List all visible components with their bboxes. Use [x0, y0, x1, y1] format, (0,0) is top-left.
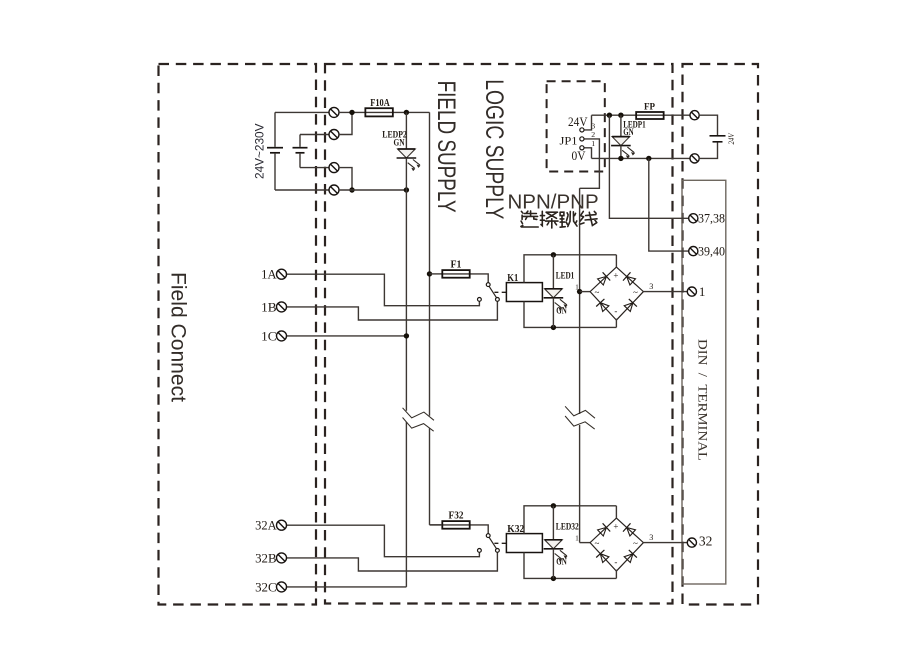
relay coil K1 [506, 283, 542, 302]
terminal logic supply + [690, 111, 699, 120]
svg-text:32C: 32C [255, 579, 277, 594]
svg-text:GN: GN [556, 307, 567, 317]
svg-text:24V: 24V [568, 115, 588, 129]
svg-text:1: 1 [575, 533, 579, 542]
LED LED1 anode wire [552, 255, 554, 289]
svg-text:1B: 1B [261, 299, 277, 314]
wire battery B2 stubs [299, 135, 301, 168]
terminal supply-1 [329, 107, 339, 117]
jumper pin 2 [580, 137, 584, 141]
LED LED32 anode wire [552, 506, 554, 540]
wire battery B1 left rail [274, 112, 276, 190]
junction supply top [349, 110, 354, 115]
jumper pin 3 [580, 128, 584, 132]
svg-text:0V: 0V [572, 149, 586, 163]
svg-text:32B: 32B [255, 550, 277, 565]
relay contact K32 throw B [496, 549, 500, 553]
svg-text:+: + [613, 271, 618, 281]
svg-text:F1: F1 [451, 260, 462, 271]
fuse F10A [365, 108, 393, 116]
linkage K32 [494, 542, 506, 544]
jumper JP1 box [547, 81, 605, 171]
svg-text:GN: GN [394, 138, 405, 148]
svg-text:GN: GN [623, 128, 634, 138]
break mark select rail [565, 406, 595, 429]
relay contact K1 arm [489, 286, 496, 297]
field return rail (upper) [405, 190, 407, 411]
relay contact K1 common [486, 283, 490, 287]
wire supply terminal 3 feed [300, 167, 329, 169]
wire bridge 1 - stub [615, 319, 617, 328]
svg-text:37,38: 37,38 [698, 212, 725, 226]
relay contact K32 arm [489, 537, 496, 548]
label 线 (CJK wire) [580, 211, 598, 225]
zone box: Field Connect area [159, 64, 317, 605]
relay contact K1 throw B [496, 298, 500, 302]
svg-text:-: - [614, 557, 617, 567]
junction 0V/39-40 [646, 156, 651, 161]
wire 1B input [287, 301, 498, 320]
junction select/bridge 1 [577, 289, 582, 294]
junction supply bottom [349, 187, 354, 192]
wire JP1 pin2 select [580, 139, 600, 188]
svg-text:JP1: JP1 [560, 133, 578, 147]
wire through fuse F1 [442, 274, 488, 283]
wire K1 coil top [524, 255, 616, 283]
wire 32A input [287, 525, 480, 557]
junction LED32 anode [551, 503, 556, 508]
svg-text:LOGIC SUPPLY: LOGIC SUPPLY [480, 79, 508, 219]
wire supply-4 to return rail [339, 189, 406, 191]
svg-text:GN: GN [556, 558, 567, 568]
wire to terminal 37,38 [609, 115, 688, 218]
wire bridge 32 output [643, 542, 687, 544]
wire 1A input [287, 274, 480, 306]
LED LED1 cathode wire [552, 298, 554, 328]
wire K32 coil bottom [524, 553, 616, 579]
terminal 37,38 [689, 214, 698, 223]
diode bridge 32 [590, 518, 643, 571]
svg-text:-: - [614, 306, 617, 316]
terminal 32A [277, 520, 287, 530]
terminal supply-2 [329, 130, 339, 140]
terminal supply-3 [329, 163, 339, 173]
junction 24V/LEDP1 [618, 113, 623, 118]
relay contact K32 throw A [478, 549, 482, 553]
wire supply-1 to fuse F10A [339, 111, 365, 113]
field supply rail (lower) [429, 428, 431, 525]
wire from battery 24V - [699, 143, 717, 159]
wire supply rail to F32 [430, 524, 443, 526]
select net rail (upper) [579, 188, 581, 414]
wire through fuse F32 [442, 525, 488, 534]
wire 32B input [287, 552, 498, 571]
LED LEDP1 cathode wire [620, 146, 622, 159]
svg-text:1C: 1C [261, 328, 277, 343]
svg-text:Field Connect: Field Connect [167, 272, 191, 402]
label 择 (CJK choose) [540, 211, 558, 228]
terminal DIN 32 [687, 538, 696, 547]
svg-text:K1: K1 [507, 273, 518, 284]
fuse F1 [442, 270, 469, 278]
LED LEDP1 anode wire [620, 115, 622, 136]
field return rail (lower) [405, 422, 407, 587]
svg-text:3: 3 [649, 533, 653, 542]
junction LED1 anode [551, 252, 556, 257]
svg-text:NPN/PNP: NPN/PNP [508, 191, 599, 214]
jumper pin 1 [580, 146, 584, 150]
wire bridge 1 output [643, 291, 687, 293]
wire bridge 32 - stub [615, 570, 617, 579]
wire K1 coil bottom [524, 302, 616, 328]
LED LEDP2 anode wire [405, 112, 407, 149]
svg-text:1: 1 [699, 284, 706, 299]
terminal 1C [277, 331, 287, 341]
wire to battery 24V + [699, 115, 717, 135]
wire rail to fuse F32 [430, 524, 443, 526]
svg-text:+: + [613, 522, 618, 532]
svg-text:32: 32 [699, 534, 713, 549]
wire bridge 1 + stub [615, 255, 617, 267]
LED LED1 [544, 289, 568, 311]
field supply rail (upper) [429, 112, 431, 415]
LED LEDP1 [611, 137, 635, 159]
svg-text:1: 1 [591, 139, 595, 148]
svg-text:3: 3 [649, 282, 653, 291]
terminal 1A [277, 269, 287, 279]
svg-text:K32: K32 [507, 524, 524, 535]
wire rail to fuse F1 [430, 273, 443, 275]
wire JP1 pin3 to 24V rail [584, 115, 591, 130]
relay coil K32 [506, 534, 542, 553]
select net rail (lower) [579, 425, 581, 543]
wire bridge supply-3/4 [339, 168, 352, 190]
terminal supply-4 [329, 185, 339, 195]
break mark field rails [403, 408, 434, 431]
svg-text:F32: F32 [449, 511, 464, 522]
svg-text:DIN / TERMINAL: DIN / TERMINAL [696, 339, 710, 461]
junction LED1 cathode [551, 325, 556, 330]
terminal 32B [277, 553, 287, 563]
svg-text:~: ~ [633, 538, 638, 548]
fuse FP [636, 112, 664, 119]
zone box: DIN terminal area [683, 64, 759, 605]
svg-text:32A: 32A [255, 518, 277, 533]
junction F1/supply rail [427, 271, 432, 276]
svg-text:FP: FP [644, 103, 655, 113]
junction LED32 cathode [551, 576, 556, 581]
svg-text:LED1: LED1 [556, 272, 575, 282]
diode bridge 1 [590, 267, 643, 320]
svg-text:1A: 1A [261, 267, 277, 282]
wire K32 coil top [524, 506, 616, 534]
wire bridge supply-1/2 [339, 112, 352, 134]
svg-text:24V: 24V [727, 133, 736, 145]
LED LEDP2 cathode wire [405, 158, 407, 190]
junction 0V/LEDP1 [618, 156, 623, 161]
svg-text:3: 3 [591, 121, 595, 130]
relay contact K32 common [486, 534, 490, 538]
wire select to bridge 32 [580, 542, 591, 544]
label 跳 (CJK jump) [560, 211, 577, 227]
wire through fuse F10A [365, 111, 429, 113]
linkage K1 [494, 291, 506, 293]
svg-text:2: 2 [591, 130, 595, 139]
terminal DIN 1 [687, 287, 696, 296]
svg-text:39,40: 39,40 [698, 244, 725, 258]
wire supply terminal 2 feed [300, 134, 329, 136]
wire supply terminal 1 feed [275, 111, 329, 113]
wire bridge 32 + stub [615, 506, 617, 518]
svg-text:FIELD SUPPLY: FIELD SUPPLY [432, 81, 460, 213]
terminal 1B [277, 302, 287, 312]
wire 32C input [287, 586, 407, 588]
junction F10A output [404, 110, 409, 115]
LED LEDP2 [397, 149, 421, 171]
terminal 39,40 [689, 247, 698, 256]
svg-text:LED32: LED32 [556, 523, 579, 533]
wire 24V rail [592, 114, 691, 116]
wire to terminal 39,40 [649, 158, 689, 251]
terminal 32C [277, 582, 287, 592]
LED LED32 [544, 540, 568, 562]
wire 1C input [287, 335, 407, 337]
junction 1C/return rail [404, 333, 409, 338]
battery 24V plates [710, 136, 726, 142]
wire supply terminal 4 feed [275, 189, 329, 191]
battery B2 plates [293, 148, 308, 153]
svg-text:24V~230V: 24V~230V [253, 123, 267, 179]
svg-text:~: ~ [594, 538, 599, 548]
junction return rail top [404, 187, 409, 192]
svg-text:~: ~ [633, 287, 638, 297]
zone box: supply/logic area [325, 64, 673, 604]
svg-text:1: 1 [575, 282, 579, 291]
svg-text:~: ~ [594, 287, 599, 297]
battery B1 plates [267, 148, 283, 153]
DIN terminal block outline [682, 180, 726, 584]
wire 0V rail [592, 157, 691, 159]
wire select to bridge 1 [580, 291, 591, 293]
LED LED32 cathode wire [552, 549, 554, 579]
svg-text:F10A: F10A [370, 98, 390, 109]
terminal logic supply - [690, 154, 699, 163]
wire JP1 pin1 to 0V rail [584, 148, 591, 159]
fuse F32 [442, 521, 469, 529]
label 选 (CJK select) [521, 211, 538, 227]
junction 24V/37-38 [607, 113, 612, 118]
relay contact K1 throw A [478, 298, 482, 302]
